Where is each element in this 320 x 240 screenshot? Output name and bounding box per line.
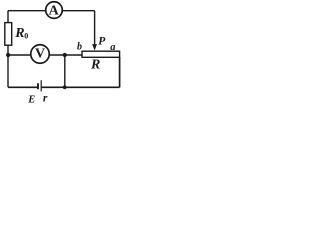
svg-text:a: a: [110, 42, 115, 53]
svg-text:r: r: [43, 93, 48, 105]
svg-text:P: P: [98, 35, 106, 47]
svg-text:0: 0: [24, 32, 28, 41]
svg-text:R: R: [14, 26, 24, 41]
svg-text:R: R: [90, 58, 100, 73]
svg-text:V: V: [35, 47, 45, 62]
svg-text:b: b: [77, 42, 82, 53]
svg-text:A: A: [49, 4, 60, 19]
svg-text:E: E: [27, 94, 35, 105]
